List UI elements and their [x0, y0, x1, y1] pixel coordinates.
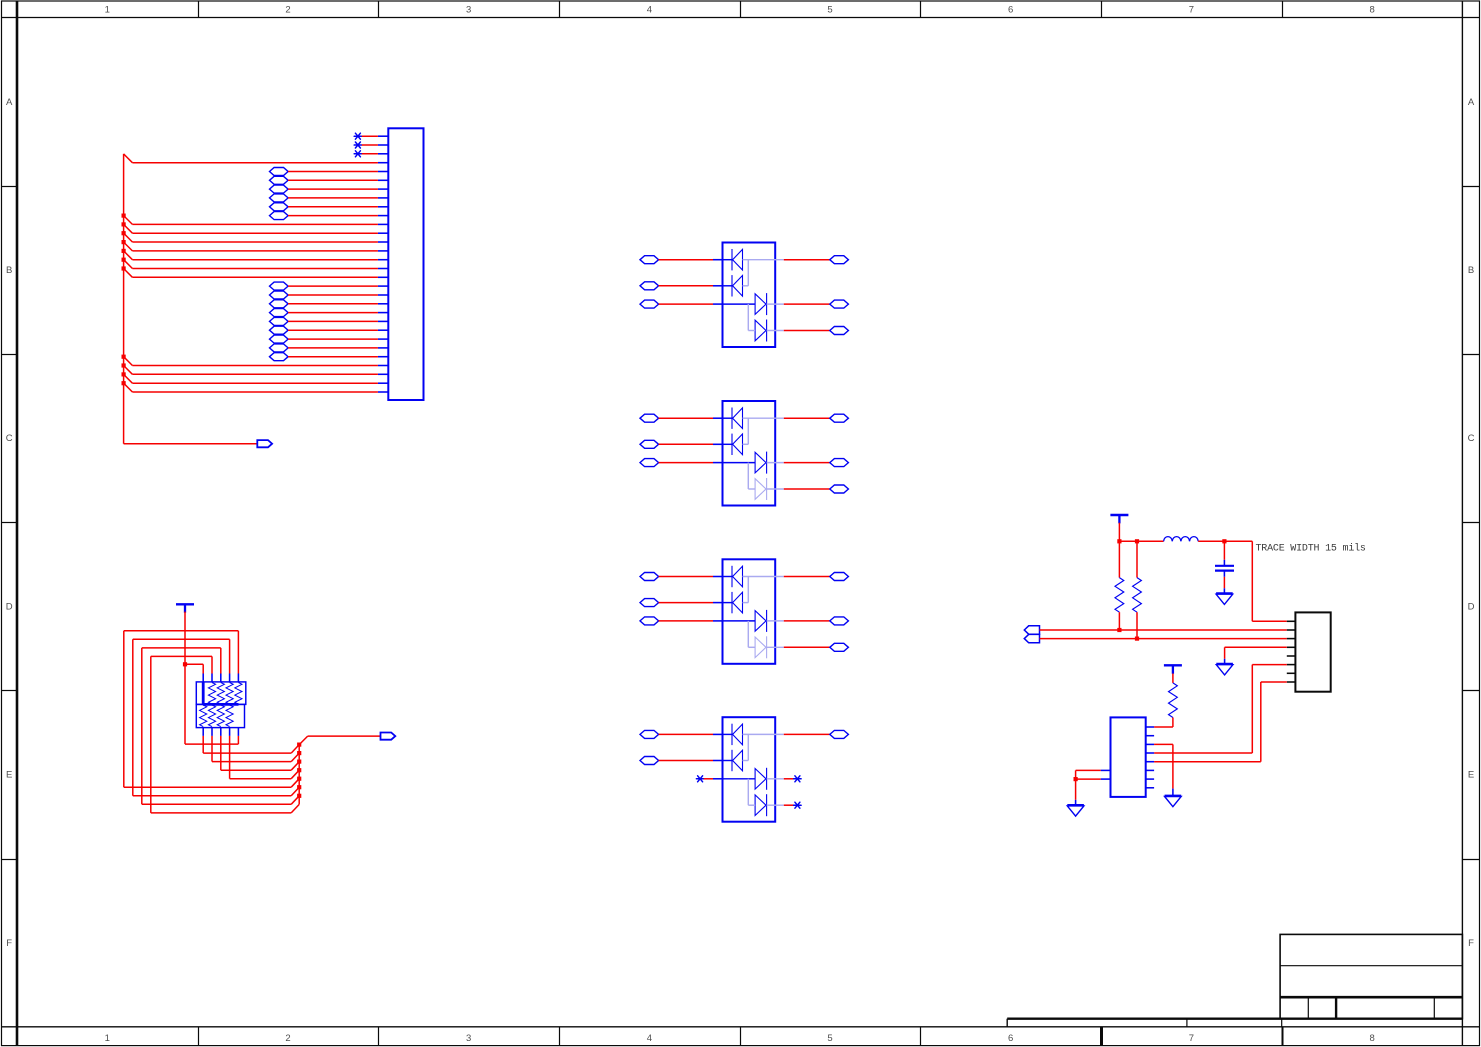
connector J1 pin 19 stub: [378, 294, 388, 296]
U2 left pin stub row2: [713, 443, 723, 445]
wire port to U1 left row2: [659, 285, 713, 287]
bus vertical wire: [123, 154, 125, 444]
connector J1 pin 28 stub: [378, 373, 388, 375]
wire port to U2 left row2: [659, 443, 713, 445]
U1 internal net D1-D2 anodes to row1 output: [743, 260, 784, 286]
port P10: [270, 212, 289, 220]
U1 left pin stub row1: [713, 259, 723, 261]
wire port to U2 left row3: [659, 462, 713, 464]
svg-text:4: 4: [647, 5, 652, 16]
wire J1 pin 1: [362, 135, 378, 137]
connector J1 pin 11 stub: [378, 223, 388, 225]
junction VCC3: [183, 662, 187, 666]
resistor R1: [1115, 541, 1124, 630]
connector J1 pin 21 stub: [378, 312, 388, 314]
junction bus 4: [297, 768, 301, 772]
svg-text:E: E: [6, 770, 12, 781]
junction on bus at pin 11 branch: [122, 214, 126, 218]
svg-text:2: 2: [285, 5, 290, 16]
connector J1 pin 12 stub: [378, 232, 388, 234]
power rail symbol VCC3: [176, 604, 194, 612]
U2 diode D3: [755, 452, 767, 474]
wire port to J1 pin 22: [288, 320, 378, 322]
port at U1 left row1: [640, 256, 659, 264]
loop wire 2 left: [132, 639, 134, 796]
svg-text:C: C: [1468, 433, 1475, 444]
wire bus to J1 pin 16: [124, 260, 378, 269]
wire bus to J1 pin 4: [124, 154, 378, 163]
RN top pin 4 stub: [229, 674, 231, 682]
port at U2 left row3: [640, 459, 659, 467]
no-connect on J1 pin 2: [354, 142, 361, 148]
connector J1 pin 13 stub: [378, 241, 388, 243]
U4 diode D3: [755, 768, 767, 790]
U1 D4 cathode to row4 output: [767, 330, 784, 332]
connector J1 pin 24 stub: [378, 338, 388, 340]
svg-text:TRACE WIDTH 15 mils: TRACE WIDTH 15 mils: [1256, 543, 1366, 555]
U5 right pin 6 stub: [1146, 769, 1154, 771]
junction R1 bottom: [1117, 628, 1121, 632]
junction bus 7: [297, 794, 301, 798]
IC U5 body: [1111, 717, 1146, 797]
wire RN bottom pin 2 to bus: [212, 736, 299, 762]
connector J1 pin 8 stub: [378, 197, 388, 199]
RN1 resistor 4: [235, 683, 242, 705]
U5 right pin 4 stub: [1146, 752, 1154, 754]
wire bus to J1 pin 14: [124, 242, 378, 251]
power rail symbol VCC1: [1110, 515, 1128, 523]
junction bus 1: [297, 743, 301, 747]
connector J1 pin 9 stub: [378, 206, 388, 208]
U5 left pin stub a: [1101, 769, 1111, 771]
U3 internal net D1-D2 anodes to row1 output: [743, 577, 784, 603]
wire port to U3 left row2: [659, 602, 713, 604]
svg-text:5: 5: [827, 1033, 832, 1044]
connector J1 pin 20 stub: [378, 303, 388, 305]
pointer off-page connector: [257, 440, 272, 447]
junction bus 6: [297, 785, 301, 789]
U1 diode D2: [732, 275, 743, 296]
U4 left pin stub row3: [713, 778, 723, 780]
wire port to U4 left row2: [659, 760, 713, 762]
wire U2 right row4 to port: [784, 488, 830, 490]
wire port to J1 pin 18: [288, 285, 378, 287]
wire port to U3 left row3: [659, 620, 713, 622]
U4 internal net row3 to D4 anode: [748, 779, 755, 805]
svg-text:C: C: [6, 433, 13, 444]
U1 pin wire row3: [723, 303, 756, 305]
wire port to J1 pin 26: [288, 356, 378, 358]
RN top pin 5 stub: [237, 674, 239, 682]
port at U1 left row3: [640, 300, 659, 308]
wire bus to J1 pin 17: [124, 269, 378, 278]
loop wire 4 left: [150, 656, 152, 813]
svg-text:6: 6: [1008, 1033, 1013, 1044]
wire port to J1 pin 19: [288, 294, 378, 296]
wire bus to J1 pin 29: [124, 374, 378, 383]
wire J2 pin 6 to U5 pin: [1154, 665, 1287, 753]
port at U3 left row3: [640, 617, 659, 625]
svg-text:E: E: [1468, 770, 1474, 781]
U4 pin wire row1: [723, 733, 733, 735]
connector J2 pin 1 stub: [1287, 620, 1296, 622]
wire U1 right row4 to port: [784, 330, 830, 332]
wire U3 right row1 to port: [784, 576, 830, 578]
loop wire 3 left: [141, 648, 143, 804]
loop wire 4 top: [151, 656, 212, 673]
port P22: [270, 317, 289, 325]
svg-text:1: 1: [105, 1033, 110, 1044]
connector J1 pin 7 stub: [378, 188, 388, 190]
U2 internal net row3 to D4 anode: [748, 463, 755, 489]
U1 left pin stub row3: [713, 303, 723, 305]
connector J1 pin 10 stub: [378, 215, 388, 217]
loop wire 2 top: [133, 639, 230, 673]
loop wire 3 top: [142, 648, 221, 674]
svg-text:7: 7: [1189, 1033, 1194, 1044]
U3 diode D4: [755, 636, 767, 658]
U3 diode D2: [732, 592, 743, 613]
U5 right pin 1 stub: [1146, 726, 1154, 728]
wire to U4 left row3: [704, 778, 713, 780]
connector J2 body: [1295, 612, 1330, 691]
wire port to J1 pin 6: [288, 179, 378, 181]
RN top pin 2 stub: [211, 674, 213, 682]
wire U2 right row3 to port: [784, 462, 830, 464]
ESD array U2 body: [723, 401, 776, 506]
wire bus to J1 pin 11: [124, 216, 378, 225]
U3 D3 cathode to row3 output: [767, 620, 784, 622]
wire J1 pin 2: [362, 144, 378, 146]
U4 internal net D1-D2 anodes to row1 output: [743, 734, 784, 760]
wire J2 pin 4 to ground: [1225, 647, 1287, 664]
wire port to J1 pin 24: [288, 338, 378, 340]
wire RN bottom pin 3 to bus: [221, 736, 299, 770]
connector J1 pin 16 stub: [378, 268, 388, 270]
U1 internal net row3 to D4 anode: [748, 304, 755, 330]
loop wire 1 left: [123, 631, 125, 787]
svg-text:6: 6: [1008, 5, 1013, 16]
svg-text:4: 4: [647, 1033, 652, 1044]
wire U1 right row1 to port: [784, 259, 830, 261]
wire bus to J1 pin 12: [124, 224, 378, 233]
port P20: [270, 300, 289, 308]
connector J2 pin 4 stub: [1287, 646, 1296, 648]
U1 diode D4: [755, 320, 767, 342]
RN bottom pin 1 stub: [202, 728, 204, 736]
U2 diode D2: [732, 434, 743, 455]
RN bottom pin 3 stub: [220, 728, 222, 736]
U5 right pin 5 stub: [1146, 761, 1154, 763]
U2 D4 cathode to row4 output: [767, 488, 784, 490]
loop wire 3 bottom: [142, 796, 299, 805]
wire VCC1 down: [1118, 523, 1120, 542]
connector J1 pin 25 stub: [378, 347, 388, 349]
port at U1 left row2: [640, 282, 659, 290]
U4 diode D1: [732, 724, 743, 745]
U5 right pin 2 stub: [1146, 735, 1154, 737]
ground under U5 net: [1165, 796, 1182, 807]
U1 diode D3: [755, 293, 767, 315]
U4 pin wire row3: [723, 778, 756, 780]
U2 left pin stub row3: [713, 462, 723, 464]
connector J2 pin 6 stub: [1287, 664, 1296, 666]
power rail symbol VCC2: [1164, 665, 1182, 673]
connector J1 pin 23 stub: [378, 329, 388, 331]
junction bus 2: [297, 751, 301, 755]
svg-text:8: 8: [1369, 1033, 1374, 1044]
port P5: [270, 168, 289, 176]
RN1 resistor 3: [226, 683, 233, 705]
wire U3 right row4 to port: [784, 646, 830, 648]
junction on bus at pin 15 branch: [122, 249, 126, 253]
port P8: [270, 194, 289, 202]
U2 diode D1: [732, 408, 743, 429]
U3 pin wire row1: [723, 576, 733, 578]
svg-text:D: D: [1468, 602, 1475, 613]
wire main to J2 pin 1: [1252, 541, 1287, 621]
ESD array U1 body: [723, 243, 776, 348]
U1 pin wire row1: [723, 259, 733, 261]
port at U4 right row1: [830, 730, 849, 738]
RN bottom pin 2 stub: [211, 728, 213, 736]
wire bus to pointer: [299, 736, 380, 745]
U3 left pin stub row1: [713, 576, 723, 578]
capacitor C1: [1215, 541, 1234, 593]
wire VCC3 to RN top pin 1: [185, 664, 203, 673]
svg-text:7: 7: [1189, 5, 1194, 16]
port P19: [270, 291, 289, 299]
port P23: [270, 326, 289, 334]
RN2 resistor 1: [200, 705, 207, 727]
wire bus to pointer: [124, 443, 258, 445]
wire port to J1 pin 25: [288, 347, 378, 349]
loop wire 4 bottom: [151, 804, 299, 813]
connector J2 pin 5 stub: [1287, 655, 1296, 657]
wire port to J1 pin 7: [288, 188, 378, 190]
wire U1 right row3 to port: [784, 303, 830, 305]
svg-text:A: A: [6, 97, 13, 108]
junction on bus at pin 16 branch: [122, 258, 126, 262]
svg-text:A: A: [1468, 97, 1475, 108]
ground under C1: [1216, 594, 1233, 605]
port at U1 right row4: [830, 327, 849, 335]
junction on bus at pin 29 branch: [122, 372, 126, 376]
U5 right pin 7 stub: [1146, 778, 1154, 780]
wire bus to J1 pin 28: [124, 366, 378, 375]
U4 left pin stub row1: [713, 733, 723, 735]
wire U2 right row1 to port: [784, 417, 830, 419]
resistor network RN2 body: [196, 704, 244, 727]
junction on bus at pin 30 branch: [122, 381, 126, 385]
U2 pin wire row3: [723, 462, 756, 464]
U1 D3 cathode to row3 output: [767, 303, 784, 305]
RN2 resistor 4: [226, 705, 233, 727]
connector J1 pin 17 stub: [378, 276, 388, 278]
port P21: [270, 309, 289, 317]
connector J1 pin 15 stub: [378, 259, 388, 261]
svg-text:B: B: [1468, 265, 1474, 276]
ground at U5 left: [1067, 805, 1084, 816]
U2 D3 cathode to row3 output: [767, 462, 784, 464]
junction at R1 top: [1117, 539, 1121, 543]
U2 diode D4: [755, 478, 767, 500]
wire J2 pin 8 to U5 pin: [1154, 682, 1287, 762]
U5 right pin 3 stub: [1146, 743, 1154, 745]
loop wire 2 bottom: [133, 787, 299, 796]
RN common rail vertical: [202, 682, 205, 705]
svg-text:D: D: [6, 602, 13, 613]
connector J2 pin 8 stub: [1287, 681, 1296, 683]
wire bus to J1 pin 13: [124, 233, 378, 242]
U4 diode D4: [755, 794, 767, 816]
junction bus 5: [297, 777, 301, 781]
wire U3 right row3 to port: [784, 620, 830, 622]
junction on bus at pin 17 branch: [122, 266, 126, 270]
wire VCC rail horizontal: [1119, 540, 1163, 542]
svg-text:F: F: [1468, 938, 1474, 949]
U2 left pin stub row1: [713, 417, 723, 419]
wire U4 right row3: [784, 778, 794, 780]
wire U5 left pins to ground: [1076, 770, 1101, 805]
port at U2 left row1: [640, 414, 659, 422]
wire L1 to corner: [1198, 540, 1252, 542]
junction on bus at pin 28 branch: [122, 363, 126, 367]
U4 D3 cathode to row3 output: [767, 778, 784, 780]
revision strip: [1007, 1019, 1462, 1027]
connector J2 pin 7 stub: [1287, 672, 1296, 674]
wire bus to J1 pin 15: [124, 251, 378, 260]
connector J1 pin 2 stub: [378, 144, 388, 146]
RN top pin 3 stub: [220, 674, 222, 682]
wire port to U3 left row1: [659, 576, 713, 578]
RN bottom pin 5 stub: [237, 728, 239, 736]
port P26: [270, 353, 289, 361]
U3 diode D3: [755, 610, 767, 632]
wire port to J1 pin 23: [288, 329, 378, 331]
no-connect on J1 pin 3: [354, 151, 361, 157]
junction on bus at pin 12 branch: [122, 222, 126, 226]
wire port to U2 left row1: [659, 417, 713, 419]
summing bus vertical: [298, 745, 300, 805]
wire R3 to U5 pin 1: [1154, 726, 1173, 728]
U3 left pin stub row3: [713, 620, 723, 622]
svg-text:F: F: [6, 938, 12, 949]
port at U4 left row1: [640, 730, 659, 738]
no-connect at U4 right row4: [794, 802, 801, 808]
port P18: [270, 282, 289, 290]
loop wire 1 top: [124, 631, 239, 674]
U1 pin wire row2: [723, 285, 733, 287]
input port IN2: [1024, 634, 1039, 642]
wire U4 right row4: [784, 804, 794, 806]
ground at J2 pin 4: [1216, 664, 1233, 675]
connector J1 pin 5 stub: [378, 171, 388, 173]
connector J1 pin 30 stub: [378, 391, 388, 393]
connector J1 pin 6 stub: [378, 179, 388, 181]
connector J1 pin 3 stub: [378, 153, 388, 155]
wire RN bottom pin 1 to bus: [203, 736, 299, 753]
wire port to U1 left row1: [659, 259, 713, 261]
port at U2 right row1: [830, 414, 849, 422]
port at U1 right row1: [830, 256, 849, 264]
port P9: [270, 203, 289, 211]
title block: [1280, 934, 1462, 1018]
junction at R2 top: [1135, 539, 1139, 543]
wire bus to J1 pin 30: [124, 383, 378, 392]
loop wire 1 bottom: [124, 779, 299, 788]
U4 pin wire row2: [723, 760, 733, 762]
connector J1: [388, 128, 423, 400]
wire port to J1 pin 10: [288, 215, 378, 217]
U1 diode D1: [732, 249, 743, 270]
connector J1 pin 29 stub: [378, 382, 388, 384]
connector J1 pin 27 stub: [378, 365, 388, 367]
resistor network RN1 body: [196, 682, 246, 705]
wire port to J1 pin 20: [288, 303, 378, 305]
svg-text:B: B: [6, 265, 12, 276]
RN2 resistor 2: [208, 705, 215, 727]
U4 D4 cathode to row4 output: [767, 804, 784, 806]
resistor R2: [1133, 541, 1142, 638]
wire port to U4 left row1: [659, 733, 713, 735]
RN bottom pin 4 stub: [229, 728, 231, 736]
U3 internal net row3 to D4 anode: [748, 621, 755, 647]
wire IN2 to J2 pin 3: [1040, 638, 1287, 640]
port P25: [270, 344, 289, 352]
port at U3 right row3: [830, 617, 849, 625]
U1 left pin stub row2: [713, 285, 723, 287]
RN common rail horizontal: [203, 703, 239, 706]
wire port to J1 pin 9: [288, 206, 378, 208]
connector J1 pin 26 stub: [378, 356, 388, 358]
port at U3 left row2: [640, 599, 659, 607]
no-connect at U4 left row3: [696, 776, 703, 782]
pointer off-page connector 2: [381, 733, 396, 740]
junction on bus at pin 14 branch: [122, 240, 126, 244]
wire VCC3 down: [184, 612, 186, 665]
junction on bus at pin 13 branch: [122, 231, 126, 235]
wire port to U1 left row3: [659, 303, 713, 305]
ESD array U3 body: [723, 559, 776, 664]
port P24: [270, 335, 289, 343]
port at U3 left row1: [640, 573, 659, 581]
port at U3 right row4: [830, 643, 849, 651]
ESD array U4 body: [723, 717, 776, 822]
port at U2 right row4: [830, 485, 849, 493]
svg-text:3: 3: [466, 5, 471, 16]
no-connect at U4 right row3: [794, 776, 801, 782]
port P6: [270, 176, 289, 184]
wire port to J1 pin 8: [288, 197, 378, 199]
port at U4 left row2: [640, 757, 659, 765]
connector J1 pin 1 stub: [378, 135, 388, 137]
junction U5 left: [1074, 777, 1078, 781]
junction on bus at pin 27 branch: [122, 355, 126, 359]
port at U2 left row2: [640, 440, 659, 448]
junction at C1 top: [1222, 539, 1226, 543]
connector J1 pin 18 stub: [378, 285, 388, 287]
wire port to J1 pin 5: [288, 171, 378, 173]
U2 pin wire row1: [723, 417, 733, 419]
svg-text:5: 5: [827, 5, 832, 16]
no-connect on J1 pin 1: [354, 133, 361, 139]
inductor L1: [1164, 537, 1199, 542]
svg-text:8: 8: [1369, 5, 1374, 16]
wire VCC3 to RN bottom pin 5: [185, 664, 238, 744]
U4 left pin stub row2: [713, 760, 723, 762]
U3 diode D1: [732, 566, 743, 587]
